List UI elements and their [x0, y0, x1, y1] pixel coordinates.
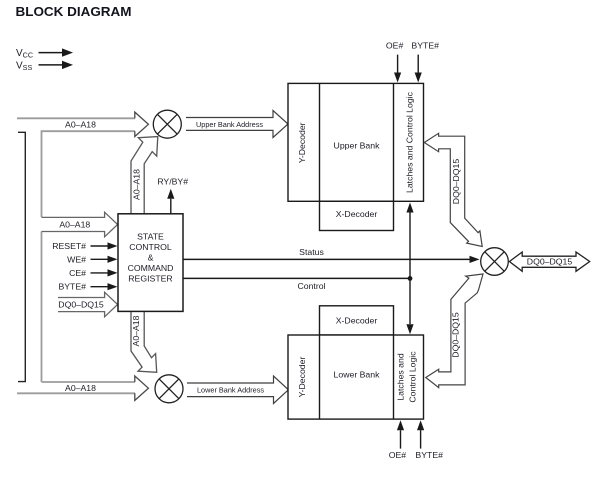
svg-text:DQ0–DQ15: DQ0–DQ15 [451, 159, 461, 205]
svg-text:Upper Bank Address: Upper Bank Address [196, 120, 263, 129]
block: state control & command register [118, 214, 183, 312]
svg-text:BYTE#: BYTE# [411, 41, 439, 51]
wire: upper A0-A18 address bus (gray) [17, 117, 135, 119]
svg-text:DQ0–DQ15: DQ0–DQ15 [450, 312, 460, 358]
data mux [481, 248, 509, 276]
wire: upper bank address band [186, 111, 288, 138]
svg-text:RY/BY#: RY/BY# [157, 177, 188, 187]
svg-text:Control: Control [297, 281, 325, 291]
svg-text:OE#: OE# [386, 41, 404, 51]
wire: A0-A18 from register to lower mux [131, 311, 157, 372]
svg-text:A0–A18: A0–A18 [131, 169, 141, 200]
divider lower Y-decoder [319, 335, 321, 419]
block: upper X-decoder [320, 201, 394, 230]
wire: vertical A0-A18 bus (gray) [41, 232, 43, 383]
wire: Control [183, 277, 410, 279]
svg-text:REGISTER: REGISTER [128, 273, 172, 283]
svg-text:COMMAND: COMMAND [128, 263, 174, 273]
svg-text:X-Decoder: X-Decoder [336, 315, 378, 325]
block: upper bank outer [288, 83, 424, 201]
svg-text:WE#: WE# [67, 254, 86, 264]
svg-text:VSS: VSS [16, 60, 32, 72]
svg-text:Lower Bank Address: Lower Bank Address [197, 386, 264, 395]
upper bank address mux [153, 110, 181, 138]
wire: DQ0-DQ15 external bus [509, 252, 589, 271]
svg-text:VCC: VCC [16, 48, 33, 60]
wire: lower bank address band [187, 376, 288, 404]
svg-text:A0–A18: A0–A18 [59, 219, 90, 229]
wire: A0-A18 from register to upper mux [131, 137, 158, 214]
svg-text:OE#: OE# [389, 450, 407, 460]
svg-text:Y-Decoder: Y-Decoder [297, 357, 307, 398]
wire: DQ0-DQ15 lower bank data path [426, 274, 483, 388]
svg-text:CE#: CE# [69, 268, 86, 278]
svg-text:A0–A18: A0–A18 [65, 120, 96, 130]
svg-text:Y-Decoder: Y-Decoder [297, 122, 307, 163]
svg-text:BYTE#: BYTE# [58, 282, 86, 292]
divider lower latches [393, 335, 395, 419]
svg-text:BYTE#: BYTE# [415, 450, 443, 460]
wire: lower A0-A18 address bus (gray) [42, 381, 136, 383]
lower bank address mux [155, 375, 183, 403]
svg-text:Upper Bank: Upper Bank [334, 141, 381, 151]
svg-text:&: & [148, 252, 154, 262]
svg-text:X-Decoder: X-Decoder [336, 209, 378, 219]
block: lower bank outer [288, 335, 424, 419]
svg-text:A0–A18: A0–A18 [65, 383, 96, 393]
wire: left bus bracket [18, 132, 25, 381]
svg-text:Latches and Control Logic: Latches and Control Logic [405, 91, 415, 193]
svg-text:STATE: STATE [137, 231, 164, 241]
svg-text:Control Logic: Control Logic [408, 351, 418, 403]
wire: DQ0-DQ15 bus into state control register [58, 292, 118, 317]
wire: A0-A18 bus into state control register [42, 212, 118, 237]
junction dot [408, 276, 413, 281]
svg-text:A0–A18: A0–A18 [131, 315, 141, 346]
svg-text:DQ0–DQ15: DQ0–DQ15 [58, 300, 104, 310]
svg-text:Status: Status [299, 247, 324, 257]
block: lower X-decoder [320, 306, 394, 335]
wire: Status [183, 258, 470, 260]
divider upper Y-decoder [319, 83, 321, 201]
svg-text:BLOCK DIAGRAM: BLOCK DIAGRAM [16, 4, 132, 19]
svg-text:Lower Bank: Lower Bank [334, 370, 381, 380]
wire: vertical bank control line [409, 213, 411, 279]
svg-text:Latches and: Latches and [396, 353, 406, 401]
divider upper latches [393, 83, 395, 201]
svg-text:RESET#: RESET# [52, 241, 86, 251]
wire: DQ0-DQ15 upper bank data path [424, 133, 482, 246]
svg-text:CONTROL: CONTROL [129, 242, 172, 252]
svg-text:DQ0–DQ15: DQ0–DQ15 [527, 257, 573, 267]
